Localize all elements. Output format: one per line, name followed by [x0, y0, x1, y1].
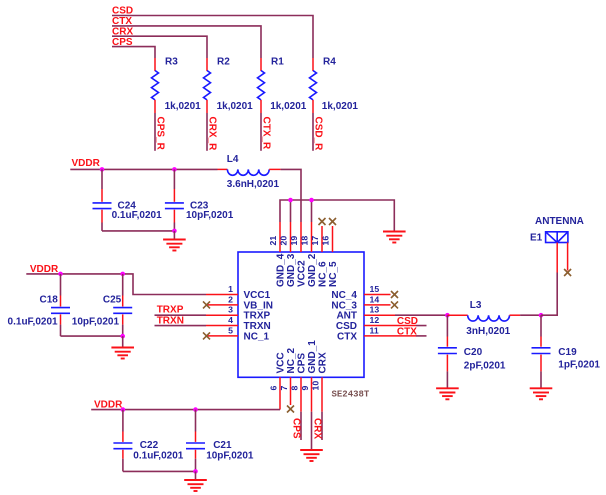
svg-text:C18: C18 — [40, 295, 59, 306]
wire L3 to C19 — [520, 314, 541, 316]
power VDDR left — [30, 264, 59, 275]
wire to ground bottom — [195, 471, 197, 479]
pin 9 GND_1 — [300, 340, 318, 412]
wire CRX net — [112, 36, 207, 58]
pin 7 NC_2 — [279, 347, 297, 405]
svg-text:L4: L4 — [227, 154, 239, 165]
pin 10 CRX — [311, 352, 329, 412]
svg-text:GND_2: GND_2 — [307, 253, 318, 287]
node TRXP — [157, 305, 184, 316]
wire pin10 stub — [321, 412, 323, 440]
capacitor C20 — [438, 315, 506, 387]
junction at C23 — [172, 167, 177, 172]
pin 19 VCC2 — [289, 222, 308, 287]
capacitor C19 — [532, 315, 601, 387]
resistor R1 — [258, 57, 307, 113]
pin 5 NC_1 — [207, 325, 270, 342]
no-connect X pin15 — [391, 291, 398, 298]
wire C19 to antenna riser — [541, 273, 557, 316]
svg-text:19: 19 — [289, 236, 299, 246]
junction at C23 bottom — [172, 229, 177, 234]
svg-text:CPS_R: CPS_R — [155, 117, 166, 151]
svg-text:R2: R2 — [217, 57, 230, 68]
wire pin20 riser — [290, 200, 292, 222]
svg-text:VCC2: VCC2 — [297, 260, 308, 287]
pin 17 NC_6 — [310, 226, 329, 287]
op-amp U1 SE2438T body — [238, 252, 364, 377]
no-connect X pin14 — [391, 301, 398, 308]
junction at pin20 bus — [288, 198, 293, 203]
svg-text:C19: C19 — [558, 347, 577, 358]
pin 21 GND_4 — [268, 222, 287, 287]
value SE2438T — [332, 390, 370, 400]
svg-text:NC_4: NC_4 — [331, 290, 357, 301]
wire VDDR rail left — [26, 274, 206, 295]
svg-text:CRX: CRX — [318, 352, 329, 373]
svg-text:CTX_R: CTX_R — [261, 117, 272, 151]
ground below C21 — [184, 480, 207, 491]
antenna E1 — [530, 216, 584, 244]
svg-text:NC_6: NC_6 — [318, 261, 329, 287]
wire CSD net — [112, 16, 313, 59]
no-connect X pin17 — [319, 218, 326, 225]
pin 14 NC_3 — [331, 294, 390, 311]
pin E1.1 — [556, 243, 558, 273]
node CRX_R — [207, 117, 218, 152]
svg-text:1k,0201: 1k,0201 — [322, 101, 359, 112]
svg-text:GND_4: GND_4 — [276, 253, 287, 287]
ground below C25 — [111, 348, 134, 359]
junction at C25 — [120, 272, 125, 277]
wire CTX net — [112, 26, 261, 58]
node CPS — [112, 37, 133, 48]
wire below R2 — [206, 113, 208, 151]
svg-text:17: 17 — [310, 236, 320, 246]
no-connect X pin5 — [203, 332, 210, 339]
node CPS_R — [155, 117, 166, 151]
ground below C23 — [163, 240, 186, 251]
junction at C24 — [100, 167, 105, 172]
pin 3 TRXP — [206, 305, 271, 322]
node CTX_R — [261, 117, 272, 151]
svg-text:ANTENNA: ANTENNA — [535, 216, 584, 227]
node CSD — [112, 6, 133, 17]
svg-text:R4: R4 — [323, 57, 336, 68]
capacitor C23 — [165, 169, 234, 231]
pin 1 VCC1 — [206, 284, 271, 301]
svg-text:VCC1: VCC1 — [244, 290, 271, 301]
inductor L4 — [218, 154, 281, 190]
svg-text:CRX: CRX — [311, 418, 322, 439]
pin 20 GND_3 — [279, 222, 298, 287]
svg-text:10: 10 — [311, 381, 321, 391]
svg-text:14: 14 — [370, 294, 380, 304]
wire L4 to pin19 — [281, 169, 301, 222]
node CSD right — [397, 316, 418, 327]
capacitor C22 — [113, 410, 183, 472]
svg-text:18: 18 — [300, 236, 310, 246]
wire pin18 riser — [311, 200, 313, 222]
svg-text:TRXN: TRXN — [157, 315, 184, 326]
svg-text:NC_5: NC_5 — [328, 261, 339, 287]
capacitor C25 — [72, 274, 132, 336]
svg-text:0.1uF,0201: 0.1uF,0201 — [112, 210, 162, 221]
svg-text:7: 7 — [279, 386, 289, 391]
pin 4 TRXN — [206, 315, 271, 332]
svg-text:CRX_R: CRX_R — [207, 117, 218, 152]
svg-text:ANT: ANT — [336, 311, 357, 322]
svg-text:3.6nH,0201: 3.6nH,0201 — [227, 179, 280, 190]
wire below R3 — [154, 113, 156, 151]
pin 13 ANT — [336, 305, 395, 322]
wire VDDR rail top — [70, 168, 217, 170]
wire VDDR rail bottom — [91, 409, 280, 411]
svg-text:10pF,0201: 10pF,0201 — [186, 210, 234, 221]
svg-text:TRXP: TRXP — [244, 311, 271, 322]
svg-text:13: 13 — [370, 305, 380, 315]
junction at C21 — [193, 407, 198, 412]
pin 16 NC_5 — [321, 226, 340, 287]
svg-text:CPS: CPS — [290, 418, 301, 439]
svg-text:CTX: CTX — [337, 331, 357, 342]
svg-text:1k,0201: 1k,0201 — [270, 101, 307, 112]
svg-text:GND_1: GND_1 — [307, 340, 318, 374]
no-connect X E1 pin2 — [564, 269, 571, 276]
svg-text:1k,0201: 1k,0201 — [217, 101, 254, 112]
junction at C22 — [121, 407, 126, 412]
ground below pin9 — [300, 450, 323, 461]
junction at C25 bottom — [120, 334, 125, 339]
capacitor C24 — [93, 169, 163, 231]
svg-text:3: 3 — [228, 305, 233, 315]
wire to ground left — [122, 336, 124, 347]
svg-text:GND_3: GND_3 — [286, 253, 297, 287]
svg-text:R3: R3 — [165, 57, 178, 68]
junction at C20 — [445, 313, 450, 318]
svg-text:21: 21 — [268, 236, 278, 246]
node CRX — [112, 27, 133, 38]
wire to ground mid — [173, 231, 175, 239]
svg-text:16: 16 — [321, 236, 331, 246]
capacitor C18 — [8, 274, 70, 336]
wire C24 to C23 bottom — [102, 230, 174, 232]
svg-text:E1: E1 — [530, 233, 543, 244]
wire pin9 to ground — [311, 412, 313, 450]
ground top right — [383, 232, 406, 243]
svg-text:TRXP: TRXP — [157, 305, 184, 316]
svg-text:CSD_R: CSD_R — [313, 117, 324, 152]
pin 8 CPS — [290, 353, 308, 412]
svg-text:1pF,0201: 1pF,0201 — [558, 360, 600, 371]
svg-text:1k,0201: 1k,0201 — [165, 101, 202, 112]
node CSD_R — [313, 117, 324, 152]
svg-text:15: 15 — [370, 284, 380, 294]
svg-text:6: 6 — [269, 386, 279, 391]
svg-text:10pF,0201: 10pF,0201 — [72, 317, 120, 328]
ground below C19 — [530, 388, 553, 399]
wire CPS net — [112, 47, 155, 58]
wire below R1 — [260, 113, 262, 151]
wire pin8 stub — [300, 412, 302, 440]
node CRX bottom — [311, 418, 322, 439]
svg-text:NC_2: NC_2 — [286, 347, 297, 373]
junction at C19 — [539, 313, 544, 318]
resistor R4 — [310, 57, 359, 113]
svg-text:CTX: CTX — [397, 326, 417, 337]
node CPS bottom — [290, 418, 301, 439]
pin 12 CSD — [336, 315, 427, 332]
no-connect X pin16 — [329, 218, 336, 225]
svg-text:12: 12 — [370, 315, 380, 325]
svg-text:8: 8 — [290, 386, 300, 391]
svg-text:0.1uF,0201: 0.1uF,0201 — [8, 317, 58, 328]
wire TRXN — [155, 325, 207, 327]
svg-text:3nH,0201: 3nH,0201 — [466, 326, 510, 337]
svg-text:2: 2 — [228, 294, 233, 304]
pin 2 VB_IN — [207, 294, 273, 311]
junction at pin18 bus — [309, 198, 314, 203]
svg-text:0.1uF,0201: 0.1uF,0201 — [133, 450, 183, 461]
pin 11 CTX — [337, 325, 427, 342]
svg-text:5: 5 — [228, 325, 233, 335]
svg-text:10pF,0201: 10pF,0201 — [206, 450, 254, 461]
no-connect X pin2 — [203, 301, 210, 308]
svg-text:NC_1: NC_1 — [244, 331, 270, 342]
wire C22 to C21 bottom — [123, 470, 196, 472]
node CTX — [112, 16, 132, 27]
inductor L3 — [447, 300, 520, 337]
ground below C20 — [436, 388, 459, 399]
svg-text:11: 11 — [370, 325, 379, 335]
wire ANT to C20 — [395, 314, 447, 316]
node CTX right — [397, 326, 417, 337]
svg-text:2pF,0201: 2pF,0201 — [464, 361, 506, 372]
node TRXN — [157, 315, 184, 326]
wire below R4 — [312, 113, 314, 151]
svg-text:20: 20 — [279, 236, 289, 246]
wire TRXP — [155, 314, 207, 316]
capacitor C21 — [186, 410, 254, 472]
resistor R3 — [152, 57, 202, 113]
wire top bus — [280, 200, 394, 231]
svg-text:1: 1 — [228, 284, 233, 294]
svg-text:R1: R1 — [271, 57, 284, 68]
wire C18 to C25 bottom — [61, 335, 123, 337]
svg-text:4: 4 — [228, 315, 233, 325]
svg-text:C20: C20 — [464, 347, 483, 358]
svg-text:CPS: CPS — [297, 353, 308, 374]
svg-text:SE2438T: SE2438T — [332, 390, 370, 400]
svg-text:VCC: VCC — [276, 352, 287, 373]
junction at C18 — [58, 272, 63, 277]
power VDDR top — [72, 158, 101, 169]
no-connect X pin7 — [287, 406, 294, 413]
pin E1.2 — [567, 243, 569, 271]
svg-text:C25: C25 — [103, 295, 122, 306]
pin 6 VCC — [269, 352, 287, 409]
junction at C21 bottom — [193, 469, 198, 474]
pin 15 NC_4 — [331, 284, 390, 301]
svg-text:L3: L3 — [470, 300, 482, 311]
pin 18 GND_2 — [300, 222, 319, 287]
power VDDR bottom — [94, 400, 123, 411]
svg-text:9: 9 — [300, 386, 310, 391]
resistor R2 — [204, 57, 254, 113]
svg-text:VDDR: VDDR — [72, 158, 101, 169]
